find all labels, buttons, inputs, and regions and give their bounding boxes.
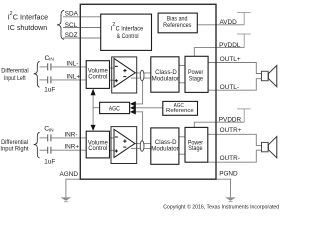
block Power Stage R <box>185 127 208 162</box>
svg-text:OUTL+: OUTL+ <box>220 56 241 63</box>
wire Class-D R to Power Stage R <box>179 136 185 138</box>
block Class-D Modulator L <box>151 57 179 92</box>
wire SCL <box>63 27 101 29</box>
svg-text:IN: IN <box>49 127 54 133</box>
svg-text:Stage: Stage <box>188 145 203 152</box>
svg-text:1uF: 1uF <box>44 87 55 94</box>
svg-text:SCL: SCL <box>65 22 78 29</box>
block Bias and References <box>158 13 197 33</box>
wire INL- <box>40 66 48 68</box>
wire INL+ <box>40 79 48 81</box>
wire AGC gain control <box>93 107 100 109</box>
svg-text:Modulator: Modulator <box>151 145 179 152</box>
wire OUTL+ <box>208 63 261 74</box>
ground PGND <box>225 197 236 200</box>
svg-text:OUTR+: OUTR+ <box>220 127 242 134</box>
speaker R <box>262 142 269 151</box>
svg-text:Input Left: Input Left <box>4 75 26 82</box>
svg-text:Copyright © 2016, Texas Instru: Copyright © 2016, Texas Instruments Inco… <box>163 204 279 211</box>
svg-text:Control: Control <box>88 145 107 152</box>
amplifier box L <box>112 57 137 93</box>
wire VCL to amp <box>109 67 114 69</box>
supply terminal AVDD <box>243 13 245 25</box>
wire PGND <box>216 179 231 197</box>
wire INR+ <box>40 149 48 151</box>
svg-text:C Interface: C Interface <box>116 26 144 33</box>
ellipse node R <box>140 141 144 152</box>
wire OUTR- <box>208 150 262 162</box>
wire PVDDR <box>194 122 244 127</box>
wire AVDD <box>197 24 244 26</box>
block Class-D Modulator R <box>151 128 179 164</box>
svg-text:SDZ: SDZ <box>65 32 78 39</box>
amplifier box R <box>111 127 137 164</box>
svg-text:INR-: INR- <box>64 131 77 138</box>
svg-text:PGND: PGND <box>219 171 238 178</box>
capacitor 1uF right bottom <box>47 147 49 154</box>
speaker L <box>262 71 269 80</box>
svg-text:Differential: Differential <box>1 67 29 74</box>
svg-text:1uF: 1uF <box>44 159 55 166</box>
svg-text:Control: Control <box>88 74 107 81</box>
brace input left <box>34 62 40 88</box>
capacitor 1uF left bottom <box>47 76 49 83</box>
wire ampR out to Class-D <box>131 142 151 144</box>
svg-text:IC shutdown: IC shutdown <box>8 24 47 32</box>
svg-text:IN: IN <box>49 56 54 62</box>
block AGC Reference <box>163 101 198 115</box>
wire VCR to amp <box>109 137 114 139</box>
ellipse node L <box>140 70 144 81</box>
svg-text:OUTR-: OUTR- <box>220 155 240 162</box>
block AGC <box>100 102 130 113</box>
wire AGC sense right <box>135 112 143 141</box>
op-amp R <box>114 129 135 157</box>
svg-text:Stage: Stage <box>189 76 204 83</box>
supply terminal PVDDL <box>243 34 245 48</box>
wire Class-D L to Power Stage L <box>179 64 185 66</box>
svg-text:INL+: INL+ <box>66 73 80 80</box>
brace input right <box>34 132 40 158</box>
block I2C Interface & Control <box>101 14 152 50</box>
svg-text:AVDD: AVDD <box>220 19 238 26</box>
wire ampL out to Class-D <box>131 72 151 74</box>
wire PVDDL <box>194 48 244 57</box>
svg-text:INR+: INR+ <box>64 144 79 151</box>
arrow up to Volume Control L <box>91 89 96 96</box>
brace SDA group <box>57 10 64 39</box>
arrowhead AGC input top <box>130 101 136 106</box>
svg-text:C Interface: C Interface <box>13 14 48 22</box>
svg-text:References: References <box>163 22 191 29</box>
wire AGC reference <box>135 107 163 109</box>
IC boundary box <box>80 4 216 179</box>
arrow down to Volume Control R <box>91 125 96 131</box>
svg-text:OUTL-: OUTL- <box>220 84 239 91</box>
svg-text:Reference: Reference <box>166 108 194 114</box>
svg-text:& Control: & Control <box>117 33 139 40</box>
supply terminal PVDDR <box>243 109 245 122</box>
arrowhead AGC input middle <box>130 105 136 110</box>
wire AGND <box>66 179 80 197</box>
wire OUTR+ <box>208 134 262 145</box>
arrowhead AGC input bottom <box>130 109 136 114</box>
svg-text:AGC: AGC <box>109 105 121 112</box>
block Power Stage L <box>185 56 208 92</box>
wire AGC sense left <box>135 78 143 104</box>
wire INR- <box>40 137 48 139</box>
block Volume Control R <box>86 131 109 158</box>
op-amp L <box>114 59 135 88</box>
svg-text:PVDDL: PVDDL <box>219 42 241 49</box>
svg-text:SDA: SDA <box>65 11 79 18</box>
wire SDA <box>63 16 101 18</box>
wire OUTL- <box>208 79 261 91</box>
svg-text:Input Right: Input Right <box>0 146 28 153</box>
capacitor CIN right top <box>47 134 49 141</box>
wire SDZ <box>63 37 101 39</box>
capacitor CIN left top <box>47 63 49 70</box>
ground AGND <box>61 197 72 200</box>
block Volume Control L <box>86 61 109 89</box>
svg-text:INL-: INL- <box>66 60 78 67</box>
svg-text:AGND: AGND <box>60 171 79 178</box>
svg-text:PVDDR: PVDDR <box>219 116 242 123</box>
svg-text:Modulator: Modulator <box>152 75 180 82</box>
